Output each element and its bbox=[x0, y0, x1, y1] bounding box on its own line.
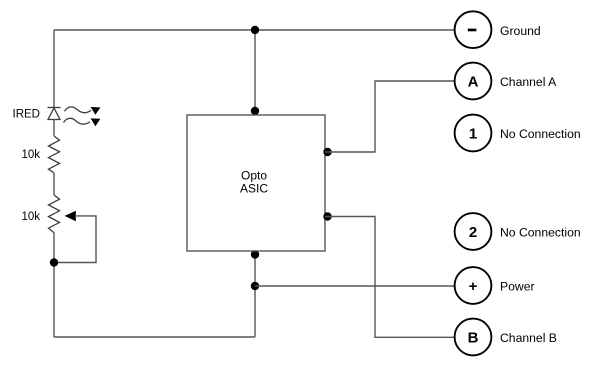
svg-text:ASIC: ASIC bbox=[240, 182, 268, 196]
wire: riser from bottom bus to Opto ASIC bottom pin bbox=[254, 251, 256, 337]
junction at Opto ASIC top pin bbox=[251, 107, 259, 115]
terminal Channel A bbox=[455, 63, 492, 100]
svg-text:No Connection: No Connection bbox=[500, 226, 581, 240]
wire: top pin from ground bus into Opto ASIC bbox=[254, 30, 256, 115]
potentiometer wiper arrow bbox=[65, 211, 76, 222]
svg-text:10k: 10k bbox=[21, 149, 40, 161]
label Opto ASIC bbox=[240, 169, 268, 196]
LED IRED (infrared emitting diode) bbox=[48, 108, 61, 120]
resistor R1 10k bbox=[49, 136, 60, 173]
svg-text:IRED: IRED bbox=[13, 109, 40, 121]
svg-text:B: B bbox=[468, 329, 479, 346]
junction on power tap bbox=[251, 282, 259, 290]
terminal Ground bbox=[455, 11, 492, 48]
svg-text:1: 1 bbox=[469, 125, 477, 142]
wire: power tap to Power terminal bbox=[255, 285, 455, 287]
svg-text:Ground: Ground bbox=[500, 24, 541, 38]
wire: channel B pin to Channel B terminal bbox=[325, 217, 455, 338]
svg-text:2: 2 bbox=[469, 224, 477, 241]
IR emission wavy arrow (upper) bbox=[65, 107, 101, 115]
terminal Power bbox=[455, 267, 492, 304]
wire: potentiometer bottom to lower-left corner bbox=[53, 233, 55, 337]
svg-text:+: + bbox=[469, 278, 478, 295]
svg-text:Channel B: Channel B bbox=[500, 331, 557, 345]
potentiometer R2 10k body bbox=[49, 195, 60, 233]
wire: wiper loop to bottom of potentiometer bbox=[54, 216, 96, 263]
wire: IRED cathode to R1 bbox=[53, 120, 55, 137]
svg-text:A: A bbox=[468, 73, 479, 90]
wire: channel A pin to Channel A terminal bbox=[325, 81, 455, 152]
op-amp U1 Opto ASIC box bbox=[187, 115, 325, 251]
terminal pin 2 bbox=[455, 213, 492, 250]
svg-text:Channel A: Channel A bbox=[500, 75, 557, 89]
IR emission wavy arrow (lower) bbox=[64, 118, 101, 126]
svg-text:Opto: Opto bbox=[241, 169, 267, 183]
wire: left vertical from top bus to IRED anode bbox=[53, 30, 55, 108]
wire: R1 to potentiometer bbox=[53, 173, 55, 195]
junction on ground bus bbox=[251, 26, 259, 34]
junction at Opto ASIC channel B pin bbox=[323, 212, 331, 220]
svg-text:10k: 10k bbox=[21, 211, 40, 223]
junction at Opto ASIC bottom pin bbox=[251, 250, 259, 258]
terminal Channel B bbox=[455, 319, 492, 356]
junction at Opto ASIC channel A pin bbox=[323, 148, 331, 156]
junction at pot bottom / wiper return bbox=[50, 258, 58, 266]
wire: ground bus top, from left branch to Ground terminal bbox=[54, 29, 455, 31]
svg-text:No Connection: No Connection bbox=[500, 127, 581, 141]
wire: bottom bus bbox=[54, 336, 255, 338]
svg-text:Power: Power bbox=[500, 280, 535, 294]
terminal pin 1 bbox=[455, 115, 492, 152]
